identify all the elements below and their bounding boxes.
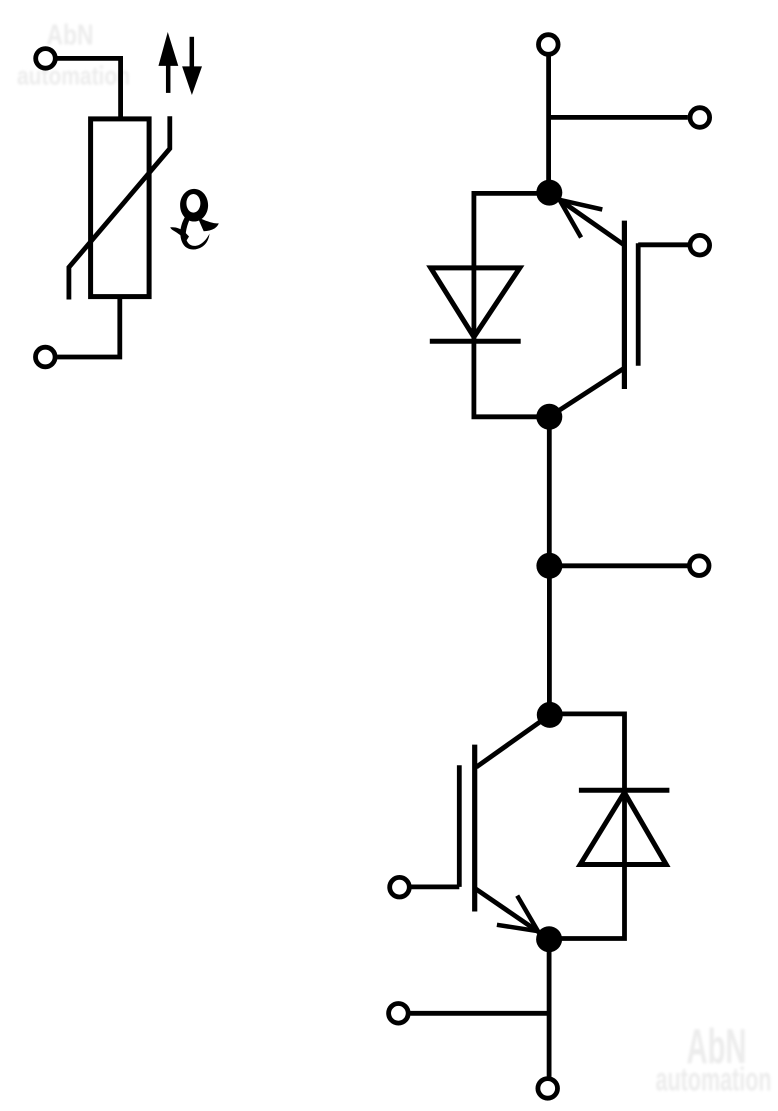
IGBT Q2 arrow bbox=[497, 896, 538, 932]
watermark AbN automation (top-left) bbox=[17, 20, 130, 91]
wire node C to terminal 6 bbox=[549, 563, 687, 568]
IGBT Q1 gate bar bbox=[636, 243, 641, 365]
terminal 9 (bottom emitter) bbox=[538, 1079, 558, 1099]
svg-text:automation: automation bbox=[656, 1061, 772, 1098]
diode D2 bbox=[579, 790, 670, 864]
wire thermistor to terminal 2 bbox=[57, 297, 120, 357]
terminal 1 (thermistor top) bbox=[36, 49, 56, 69]
node B junction dot bbox=[536, 404, 562, 430]
wire terminal1 to thermistor bbox=[57, 58, 120, 119]
diode D1 bbox=[430, 268, 521, 341]
IGBT Q1 arrow bbox=[560, 200, 603, 238]
thermistor R1 diagonal stroke bbox=[69, 116, 170, 299]
IGBT Q2 body bar bbox=[472, 745, 477, 912]
arrow up (temperature) bbox=[159, 34, 178, 93]
wire terminal3 down to node A bbox=[546, 54, 551, 192]
arrow down (temperature) bbox=[183, 37, 202, 94]
terminal 4 (collector aux) bbox=[690, 108, 710, 128]
IGBT Q1 body bar bbox=[622, 221, 627, 389]
wire gate Q2 to terminal 7 bbox=[411, 885, 459, 890]
thermistor R1 body bbox=[91, 119, 150, 297]
watermark AbN automation (bottom-right) bbox=[656, 1020, 772, 1098]
terminal 2 (thermistor bottom) bbox=[36, 347, 56, 367]
node A junction dot bbox=[536, 180, 562, 206]
wire node B to node C bbox=[547, 417, 552, 566]
IGBT Q1 collector line bbox=[549, 193, 624, 246]
terminal 5 (gate Q1) bbox=[690, 235, 710, 255]
wire branch to terminal 4 bbox=[549, 115, 688, 120]
node C junction dot (phase output) bbox=[536, 553, 562, 579]
label theta bbox=[170, 189, 219, 250]
IGBT Q1 emitter line bbox=[549, 368, 624, 417]
node E junction dot bbox=[536, 926, 562, 952]
IGBT Q2 collector line bbox=[476, 715, 550, 767]
node D junction dot bbox=[537, 702, 563, 728]
svg-text:AbN: AbN bbox=[47, 20, 94, 52]
svg-text:automation: automation bbox=[17, 61, 130, 91]
IGBT Q2 gate bar bbox=[457, 765, 462, 887]
wire diode D2 branch bbox=[549, 714, 624, 939]
terminal 3 (top collector) bbox=[539, 35, 559, 55]
wire gate Q1 to terminal 5 bbox=[638, 242, 688, 247]
IGBT Q2 emitter line bbox=[475, 888, 549, 939]
terminal 8 (emitter aux) bbox=[389, 1004, 409, 1024]
terminal 7 (gate Q2) bbox=[390, 877, 410, 897]
wire diode D1 branch bbox=[474, 193, 549, 416]
terminal 6 (phase output) bbox=[689, 556, 709, 576]
wire node E to terminal 9 bbox=[547, 939, 552, 1078]
wire aux emitter to terminal 8 bbox=[410, 1011, 549, 1016]
wire node C to node D bbox=[547, 566, 552, 715]
